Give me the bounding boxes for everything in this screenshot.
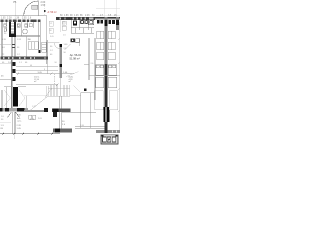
black appliance squares right unit <box>97 20 115 24</box>
bottom right wall band <box>96 130 120 133</box>
svg-text:canc.: canc. <box>17 121 22 123</box>
round table <box>23 29 28 34</box>
svg-text:8: 8 <box>44 69 45 71</box>
svg-text:2.6: 2.6 <box>63 35 66 37</box>
top dim text row left <box>1 18 32 20</box>
balcony frame center-right <box>81 93 91 129</box>
wardrobe column <box>42 42 47 52</box>
balcony edge line top-left <box>0 15 47 17</box>
lower-left horizontal wall y108.5-111.8 <box>0 108 28 111</box>
bedroom wall line y36 <box>16 35 40 37</box>
kitchen appliances squares <box>80 20 88 24</box>
bottom balcony rails <box>62 112 105 128</box>
svg-text:51.98 m²: 51.98 m² <box>70 56 80 60</box>
svg-text:1.86: 1.86 <box>64 15 69 17</box>
bottom-left dimension line <box>0 133 60 135</box>
diagonal in big room <box>30 96 48 111</box>
wardrobes flanking party wall <box>97 31 116 60</box>
lower horizontal wall x24-48 <box>24 110 48 112</box>
small texts upper rooms <box>2 39 94 65</box>
bottom right legend box <box>101 135 118 144</box>
left corridor walls lower <box>1 90 3 108</box>
bathroom fixtures top-left <box>4 24 33 32</box>
elevator gray bar <box>11 59 13 108</box>
stair shaft walls <box>9 22 11 37</box>
washing machine circle <box>89 20 94 25</box>
partition walls below top band <box>7 22 34 36</box>
top dim text row right <box>60 15 117 17</box>
stair landing block <box>9 34 16 38</box>
door swing arc top-left <box>24 1 39 16</box>
svg-text:2.80: 2.80 <box>17 114 21 116</box>
sink counter boxes left of kitchen <box>62 21 66 30</box>
beds flanking party wall <box>96 65 117 88</box>
svg-text:90: 90 <box>50 30 52 32</box>
party wall right x104.3-107.4 <box>104 17 107 64</box>
right edge dimension line <box>118 22 120 130</box>
window hatch strip center <box>45 85 81 98</box>
svg-text:1.2: 1.2 <box>50 23 53 25</box>
svg-text:3.05: 3.05 <box>50 36 54 38</box>
room label blocks <box>34 76 74 84</box>
balcony terrace lines left mid <box>16 60 58 74</box>
building left edge wall <box>1 22 3 59</box>
shaft door marks <box>12 44 15 48</box>
svg-text:m²: m² <box>34 80 37 83</box>
entry hall wall x60-62 <box>60 44 62 78</box>
svg-text:m²: m² <box>69 80 72 83</box>
room divider left x26.8 <box>26 96 28 111</box>
radiator fixtures bottom-left room <box>29 115 36 119</box>
svg-text:Asc.: Asc. <box>17 117 21 120</box>
wardrobe left bedroom <box>28 42 38 50</box>
svg-text:1.50: 1.50 <box>41 4 46 7</box>
small text rows left rooms <box>4 33 32 41</box>
mid dimension band <box>0 72 74 85</box>
arrows below wall <box>8 112 20 118</box>
top wall band left (x0-40, y19.3-22.2) <box>1 19 41 22</box>
svg-text:1.26: 1.26 <box>74 15 79 17</box>
interior wall vertical x47 <box>47 40 48 64</box>
interior wall vertical x39.5 <box>39 22 41 52</box>
door swing diagonal <box>65 44 71 50</box>
svg-text:2.46: 2.46 <box>85 15 90 17</box>
center vertical wall lower <box>60 96 62 112</box>
corridor wall (x0-47.5, y56.5-59.3) <box>1 57 48 60</box>
bottom mid dark wall block <box>53 129 72 133</box>
elevator shaft black <box>13 87 18 107</box>
right edge wall x116-119 <box>116 17 119 30</box>
stair shaft lower double wall <box>12 37 15 57</box>
entry door arc <box>54 43 59 48</box>
stair treads <box>11 24 14 33</box>
center wall black cap + horizontal dark band <box>52 108 71 112</box>
svg-text:46: 46 <box>30 65 32 67</box>
bedroom west wall lines <box>84 38 98 100</box>
bottom-left vertical double wall <box>12 112 15 133</box>
center vertical wall to bottom <box>59 112 61 130</box>
top wall band right (x55-120, y17-19.8) <box>56 17 120 20</box>
dim box on arc <box>32 5 38 9</box>
elevator black blobs on bar <box>13 62 16 81</box>
background <box>0 0 120 146</box>
kitchen counter lines <box>71 20 94 33</box>
bottom dim texts <box>1 119 66 130</box>
left lower rooms diagonals <box>4 90 25 106</box>
svg-text:A: 56 m²: A: 56 m² <box>48 11 57 14</box>
door swing lower right of hall <box>74 86 81 93</box>
rooms outlines bottom right <box>95 91 118 110</box>
kitchen end counter with dot <box>71 39 76 43</box>
entry area labels small boxes x48-58 y20-36 <box>49 21 53 33</box>
axis grid faint lines <box>96 0 120 17</box>
kitchen black stove <box>73 20 77 25</box>
